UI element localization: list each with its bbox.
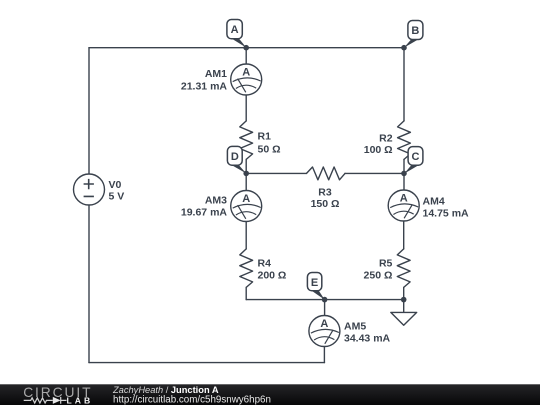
wire node B down <box>403 48 405 121</box>
svg-text:100 Ω: 100 Ω <box>364 144 393 156</box>
wire D to R3 <box>246 172 306 174</box>
svg-text:D: D <box>231 151 239 163</box>
svg-text:250 Ω: 250 Ω <box>364 270 393 282</box>
svg-text:A: A <box>231 24 239 36</box>
logo diode triangle <box>53 397 61 404</box>
svg-text:14.75 mA: 14.75 mA <box>423 208 470 220</box>
svg-text:150 Ω: 150 Ω <box>311 198 340 210</box>
svg-text:AM4: AM4 <box>423 196 445 208</box>
svg-text:5 V: 5 V <box>109 190 125 202</box>
wire R1 to node D <box>245 159 247 173</box>
svg-text:19.67 mA: 19.67 mA <box>181 206 228 218</box>
ammeter AM1 <box>181 64 262 95</box>
ground <box>391 312 417 325</box>
wire D to AM3 <box>245 173 247 190</box>
wire bottom rail D-leg to ground leg <box>246 299 404 301</box>
svg-text:R1: R1 <box>258 131 272 143</box>
svg-text:21.31 mA: 21.31 mA <box>181 81 228 93</box>
ammeter AM3 <box>181 191 262 222</box>
wire R3 to C <box>345 172 404 174</box>
svg-text:200 Ω: 200 Ω <box>258 270 287 282</box>
svg-text:AM1: AM1 <box>205 68 227 80</box>
node B <box>401 21 423 51</box>
svg-text:E: E <box>311 277 318 289</box>
svg-text:http://circuitlab.com/c5h9snwy: http://circuitlab.com/c5h9snwy6hp6n <box>113 395 271 405</box>
svg-text:C: C <box>412 151 420 163</box>
wire AM4 to R5 <box>403 221 405 249</box>
node E <box>307 273 327 303</box>
svg-text:ZachyHeath / Junction A: ZachyHeath / Junction A <box>112 385 219 395</box>
svg-text:R3: R3 <box>318 187 332 199</box>
svg-text:R5: R5 <box>379 258 393 270</box>
svg-text:A: A <box>320 318 328 330</box>
label R3 <box>311 187 340 211</box>
resistor R5 <box>397 249 410 288</box>
wire C to AM4 <box>403 173 405 190</box>
resistor R2 <box>398 121 411 159</box>
wire bottom <box>89 362 324 364</box>
svg-text:R4: R4 <box>258 258 272 270</box>
wire left upper <box>88 48 90 175</box>
footer bar <box>0 384 540 405</box>
wire AM3 to R4 <box>245 221 247 249</box>
resistor R1 <box>240 121 253 159</box>
wire AM5 bottom stub <box>323 346 325 362</box>
wire R5 to bottom rail <box>403 287 405 299</box>
svg-text:A: A <box>400 193 408 205</box>
svg-text:B: B <box>411 25 419 37</box>
resistor R4 <box>240 249 253 288</box>
junction dot ground rail <box>401 297 407 303</box>
voltage source V0 <box>74 174 125 205</box>
svg-text:LAB: LAB <box>67 395 94 405</box>
wire R2 to node C <box>403 159 405 173</box>
node D <box>227 146 249 176</box>
svg-text:A: A <box>242 67 250 79</box>
wire node E to AM5 <box>324 300 326 316</box>
svg-text:AM3: AM3 <box>205 194 227 206</box>
node C <box>401 147 423 177</box>
svg-text:V0: V0 <box>109 179 122 191</box>
label R5 <box>364 258 393 282</box>
svg-text:AM5: AM5 <box>344 321 366 333</box>
svg-text:34.43 mA: 34.43 mA <box>344 333 391 345</box>
ammeter AM4 <box>388 190 469 221</box>
label R2 <box>364 132 393 156</box>
wire left lower <box>88 205 90 363</box>
ammeter AM5 <box>309 316 391 347</box>
node A <box>227 20 249 51</box>
svg-text:50 Ω: 50 Ω <box>258 144 281 156</box>
wire AM1 to R1 <box>245 95 247 121</box>
label R1 <box>258 131 281 156</box>
resistor R3 <box>307 167 346 180</box>
svg-text:R2: R2 <box>379 132 393 144</box>
wire junction to ground <box>403 300 405 313</box>
wire node A to AM1 <box>245 48 247 64</box>
label R4 <box>258 258 287 282</box>
wire R4 to bottom rail <box>245 287 247 299</box>
svg-text:A: A <box>242 193 250 205</box>
logo resistor-diode squiggle <box>24 397 67 404</box>
wire top A-B <box>89 47 404 49</box>
